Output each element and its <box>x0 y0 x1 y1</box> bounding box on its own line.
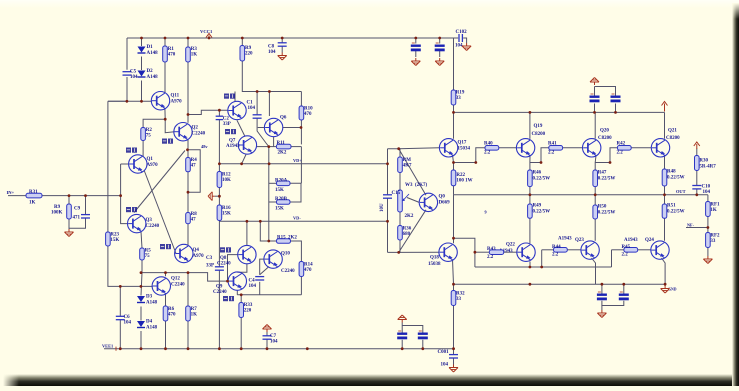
svg-text:2K2: 2K2 <box>288 236 297 241</box>
wire: Q22 emitter <box>529 262 531 268</box>
wire: R15 left <box>269 240 277 242</box>
junction dots output <box>452 161 709 286</box>
ground <box>411 58 420 66</box>
svg-text:R41: R41 <box>548 142 557 147</box>
svg-text:IN+: IN+ <box>7 190 15 195</box>
svg-text:R6: R6 <box>168 307 175 312</box>
svg-text:R4: R4 <box>191 158 198 163</box>
wire: R22 bottom <box>453 186 455 195</box>
wire: Q0 collector diag <box>399 149 426 196</box>
resistor R50 <box>593 205 598 219</box>
wire: R7 bottom <box>187 321 189 349</box>
wire: Q12 emitter to R6 <box>165 295 167 307</box>
wire: Q18 node to drivers <box>454 238 475 267</box>
svg-text:C9: C9 <box>74 207 81 212</box>
capacitor C10 <box>692 186 701 189</box>
wire: R32 top <box>453 284 455 290</box>
svg-text:A970: A970 <box>147 163 159 168</box>
resistor R15 <box>277 239 291 244</box>
svg-text:15K: 15K <box>275 207 284 212</box>
svg-text:C8: C8 <box>268 45 275 50</box>
svg-text:Q2: Q2 <box>192 126 199 131</box>
wire: C102 tie <box>454 37 459 39</box>
wire: cap C14 bottom <box>615 104 617 113</box>
wire: R14 bottom <box>300 277 302 295</box>
capacitor C13 <box>590 94 600 102</box>
wire: Q8 emitter to Q9 <box>237 264 247 273</box>
wire: Q9 emitter <box>236 290 238 295</box>
svg-text:RF1: RF1 <box>710 203 720 208</box>
wire: cap C12 gnd stub <box>439 51 441 57</box>
trimmer W3 <box>398 190 403 212</box>
svg-text:Q12: Q12 <box>171 277 180 282</box>
svg-text:(2K7): (2K7) <box>415 183 428 188</box>
svg-text:R46: R46 <box>533 171 542 176</box>
svg-text:Q21: Q21 <box>668 129 677 134</box>
wire: R12-R16 <box>218 188 220 206</box>
resistor R30 <box>695 156 700 171</box>
wire: C21 bottom <box>422 340 424 349</box>
wire: Q7 collector to node <box>256 146 268 148</box>
svg-text:VEE1: VEE1 <box>102 343 113 348</box>
wire: D4 to VEE rail <box>140 331 142 349</box>
diode D2 <box>138 69 159 80</box>
wire: Q8 collector up <box>246 221 248 245</box>
svg-text:R51: R51 <box>667 204 676 209</box>
svg-text:Q24: Q24 <box>645 238 654 243</box>
wire: R45 to Q24 <box>638 249 651 251</box>
svg-text:1K: 1K <box>191 313 198 318</box>
wire: Q11 base row <box>108 100 152 102</box>
wire: R33 top <box>240 295 242 303</box>
svg-text:C2240: C2240 <box>213 290 227 295</box>
wire: RM top <box>388 149 401 157</box>
svg-text:104: 104 <box>249 284 257 289</box>
wire: R12 top <box>218 164 220 172</box>
wire: VEE2 rail <box>454 283 666 285</box>
svg-text:VD+: VD+ <box>293 158 302 163</box>
transistor Q10 <box>264 250 282 268</box>
wire: node to R11 <box>269 146 277 148</box>
svg-text:2.2: 2.2 <box>622 253 629 258</box>
wire: D1-D2 <box>141 57 143 71</box>
svg-text:R36: R36 <box>403 227 412 232</box>
wire: R41 left <box>530 148 549 163</box>
transistor Q2 <box>174 123 206 141</box>
svg-text:2K2: 2K2 <box>278 151 287 156</box>
svg-text:33P: 33P <box>206 264 214 269</box>
capacitor C9 <box>81 215 90 218</box>
svg-text:C15: C15 <box>392 191 401 196</box>
svg-text:33: 33 <box>456 96 462 101</box>
resistor R3 <box>186 47 198 62</box>
wire: R47 bottom <box>594 187 596 195</box>
ground <box>703 256 712 264</box>
svg-text:0.22/5W: 0.22/5W <box>598 211 616 216</box>
svg-text:A1943: A1943 <box>624 238 638 243</box>
capacitor C11 <box>411 43 421 51</box>
svg-text:15034: 15034 <box>458 147 471 152</box>
resistor R32 <box>451 291 465 306</box>
wire: C1 to Q7 node <box>257 118 269 146</box>
svg-text:C2240: C2240 <box>171 283 185 288</box>
wire: VCC1 top rail <box>127 37 454 39</box>
matched-pair label Q9 <box>223 296 234 301</box>
svg-text:D4: D4 <box>146 320 153 325</box>
capacitor C15 <box>383 195 392 198</box>
svg-text:2.2: 2.2 <box>487 255 494 260</box>
wire: caps join <box>602 301 624 306</box>
svg-text:C1: C1 <box>247 101 254 106</box>
wire: Q17 emitter <box>453 155 454 163</box>
wire: R49 to Q22 <box>529 218 531 243</box>
svg-text:100K: 100K <box>51 211 63 216</box>
svg-text:C2240: C2240 <box>217 262 231 267</box>
svg-text:2K2: 2K2 <box>405 214 414 219</box>
svg-text:R50: R50 <box>598 205 607 210</box>
resistor R11 <box>276 144 291 149</box>
wire: OUT rail <box>454 194 708 196</box>
wire: Q3 emitter to R5 <box>141 232 142 249</box>
power tap <box>398 315 407 323</box>
wire: C9 bottom <box>69 218 86 228</box>
transistor Q5 <box>228 101 246 119</box>
wire: Q7 emitter down <box>242 155 246 164</box>
wire: C1 top <box>256 92 258 115</box>
page shadow right <box>732 3 739 386</box>
svg-text:C102: C102 <box>456 30 468 35</box>
svg-text:R43: R43 <box>487 247 496 252</box>
wire: C2 top <box>218 110 220 116</box>
resistor R14 <box>299 262 313 277</box>
svg-text:104: 104 <box>124 321 132 326</box>
ground <box>590 78 599 86</box>
wire: left column upper <box>107 101 109 232</box>
matched-pair label Q8 <box>220 247 231 252</box>
svg-text:R9: R9 <box>54 205 61 210</box>
wire: cap C16 stub <box>601 284 603 293</box>
svg-text:R3: R3 <box>191 47 198 52</box>
wire: down to ladder <box>300 147 302 184</box>
svg-text:W3: W3 <box>405 183 413 188</box>
wire: R5 bottom <box>141 260 143 273</box>
svg-text:2.2: 2.2 <box>617 151 624 156</box>
capacitor C5 <box>123 70 139 81</box>
capacitor C001 <box>449 355 458 358</box>
wire: R51 to Q24 <box>664 218 666 241</box>
svg-text:15K: 15K <box>222 212 231 217</box>
wire: Q4 emitter to R7 <box>187 273 189 306</box>
capacitor C20 <box>397 331 407 339</box>
net tick VEE1 <box>115 347 117 351</box>
wire: node to Q2 base <box>165 119 174 133</box>
wire: Q20 emitter <box>594 156 597 163</box>
resistor R9 <box>240 46 253 62</box>
svg-text:Q17: Q17 <box>458 141 467 146</box>
wire: R50 to Q23 <box>594 219 596 241</box>
wire: R9 to mirror row <box>242 61 301 92</box>
svg-text:R2: R2 <box>146 128 153 133</box>
svg-text:Q22: Q22 <box>506 243 515 248</box>
svg-text:470: 470 <box>304 112 312 117</box>
wire: Q11 emitter <box>164 108 166 119</box>
wire: C2 to VD+ node <box>218 120 220 164</box>
wire: R41 to Q20 <box>563 147 583 149</box>
wire: D2 bottom <box>141 81 143 102</box>
wire: C001 stub <box>453 349 455 354</box>
svg-text:VCC1: VCC1 <box>200 29 213 34</box>
svg-text:470: 470 <box>168 313 176 318</box>
wire: R32 bottom <box>453 306 455 349</box>
power VCC1 <box>206 34 212 39</box>
svg-text:15038: 15038 <box>428 262 441 267</box>
resistor R40 <box>485 146 499 151</box>
svg-text:33P: 33P <box>223 122 231 127</box>
wire: to Q17 base <box>399 147 440 150</box>
svg-text:R1: R1 <box>168 47 175 52</box>
junction dots left <box>68 100 221 288</box>
transistor Q12 <box>152 277 185 296</box>
wire: bias col top <box>387 149 389 195</box>
wire: Q10 base <box>260 259 265 266</box>
junction dots top rail <box>140 37 441 40</box>
wire: Q24 emitter down <box>662 258 666 284</box>
resistor R10 <box>299 106 313 120</box>
resistor R36 <box>398 226 412 241</box>
capacitor C21 <box>418 331 428 339</box>
svg-text:D1: D1 <box>147 45 154 50</box>
wire: R30 top <box>696 149 698 156</box>
capacitor C16 <box>597 292 607 300</box>
svg-text:104: 104 <box>130 75 138 80</box>
capacitor C2 <box>216 116 224 119</box>
transistor Q9 <box>228 272 246 290</box>
power arrow R30 <box>694 142 700 149</box>
svg-text:Q8: Q8 <box>220 256 227 261</box>
svg-text:R19: R19 <box>456 91 465 96</box>
svg-text:0.22/5W: 0.22/5W <box>533 177 551 182</box>
svg-text:R12: R12 <box>222 173 231 178</box>
junction dots mirror <box>218 90 302 296</box>
svg-text:R32: R32 <box>456 292 465 297</box>
capacitor C12 <box>435 43 445 51</box>
resistor R49 <box>528 204 533 218</box>
wire: VCC drop right <box>453 38 455 90</box>
wire: mirror bottom row <box>237 294 301 296</box>
wire: Q17 collector <box>453 112 455 138</box>
svg-text:A148: A148 <box>147 75 159 80</box>
resistor R48 <box>662 169 667 186</box>
svg-text:R44: R44 <box>552 245 561 250</box>
wire: R45 left drop <box>611 250 613 267</box>
matched-pair label Q5 <box>224 94 235 99</box>
capacitor C8 <box>268 43 287 55</box>
svg-text:C8200: C8200 <box>666 136 680 141</box>
svg-text:R48: R48 <box>667 170 676 175</box>
svg-text:2.2: 2.2 <box>548 151 555 156</box>
wire: left dropper bottom <box>108 77 127 101</box>
transistor Q0 <box>419 193 450 211</box>
wire: VD+ net <box>219 163 387 165</box>
svg-text:680: 680 <box>403 232 411 237</box>
wire: Q5 to Q7 <box>237 120 245 136</box>
svg-text:75: 75 <box>145 254 151 259</box>
wire: R40 to Q19 <box>499 147 517 149</box>
capacitor C102 <box>459 34 462 42</box>
svg-text:R10: R10 <box>304 107 313 112</box>
svg-text:C3: C3 <box>206 256 213 261</box>
svg-text:470: 470 <box>304 268 312 273</box>
wire: C3 bottom <box>218 270 220 349</box>
svg-text:Q18: Q18 <box>430 256 439 261</box>
ground <box>462 43 471 51</box>
resistor R51 <box>662 204 667 218</box>
wire: cap C13 bottom <box>594 104 596 113</box>
svg-text:104: 104 <box>270 340 278 345</box>
wire: R47 top <box>594 163 596 171</box>
wire: node to R8 <box>187 192 189 212</box>
resistor RF2 <box>706 233 720 248</box>
svg-text:0.22/5W: 0.22/5W <box>533 210 551 215</box>
wire: Q21 collector <box>664 112 666 138</box>
wire: R19 bottom <box>453 105 455 112</box>
wire: to D3 <box>141 273 142 296</box>
resistor R4 <box>186 158 198 172</box>
wire: C4 bottom <box>259 282 261 295</box>
wire: Q6 col stub <box>268 92 270 117</box>
junction dots bias <box>386 147 400 254</box>
svg-text:Q3: Q3 <box>146 218 153 223</box>
svg-text:Q4: Q4 <box>193 248 200 253</box>
wire: OUT to Q18 <box>453 195 455 244</box>
svg-text:33: 33 <box>456 297 462 302</box>
wire: Q6 base stub <box>258 127 265 129</box>
wire: R42 left <box>595 148 617 163</box>
resistor R9B <box>67 204 72 219</box>
wire: Q12 collector stub <box>165 273 167 277</box>
svg-text:220: 220 <box>244 309 252 314</box>
svg-text:A148: A148 <box>146 326 158 331</box>
wire: R20A left <box>269 182 277 184</box>
svg-text:D2: D2 <box>147 69 154 74</box>
wire: Q0 emitter diag <box>399 210 426 253</box>
wire: Q23 emitter down <box>592 258 596 284</box>
capacitor C14 <box>611 94 621 102</box>
wire: Q0 base diag <box>407 198 419 203</box>
svg-text:R30: R30 <box>699 159 708 164</box>
wire: R50 top <box>594 195 596 205</box>
svg-text:0.22/5W: 0.22/5W <box>598 177 616 182</box>
ground <box>278 53 287 61</box>
transistor Q17 <box>439 139 470 157</box>
svg-text:A1943: A1943 <box>226 144 240 149</box>
junction dots VCC2 rail <box>452 111 617 114</box>
transistor Q11 <box>151 92 182 110</box>
svg-text:RF2: RF2 <box>710 234 720 239</box>
resistor R23 <box>106 232 120 246</box>
wire: VEE1 bottom rail <box>104 348 455 350</box>
wire: R45 left <box>612 249 624 251</box>
svg-text:104: 104 <box>268 50 276 55</box>
wire: Q19 collector <box>529 112 531 138</box>
svg-text:R20A: R20A <box>275 179 288 184</box>
svg-text:R14: R14 <box>304 263 313 268</box>
resistor R12 <box>217 172 231 188</box>
svg-text:VD-: VD- <box>293 215 301 220</box>
wire: R10 top <box>300 92 302 107</box>
svg-text:104: 104 <box>248 106 256 111</box>
matched-pair label Q4 <box>160 244 171 249</box>
wire: R4 to R8 node <box>187 172 189 192</box>
svg-text:R47: R47 <box>598 171 607 176</box>
wire: C6 top <box>119 286 121 316</box>
resistor R1 <box>163 46 176 62</box>
transistor Q21 <box>651 139 669 157</box>
wire: Q5 emitter up <box>234 92 236 102</box>
wire: C102 to gnd <box>463 38 466 43</box>
capacitor C3 <box>215 267 224 270</box>
wire: cap C14 top <box>595 87 616 96</box>
wire: Q21 emitter to R48 <box>664 156 666 169</box>
resistor R8 <box>186 212 198 224</box>
wire: left dropper top <box>126 38 128 70</box>
wire: caps to gnd <box>601 306 603 311</box>
resistor R45 <box>624 248 638 253</box>
svg-text:48v: 48v <box>201 144 208 149</box>
svg-text:4K7: 4K7 <box>403 164 412 169</box>
resistor R20B <box>277 200 291 205</box>
svg-text:C7: C7 <box>270 334 277 339</box>
ground <box>597 310 606 318</box>
wire: R20A-R20B right <box>290 183 301 202</box>
wire: C21 top <box>402 326 423 333</box>
wire: R1 to Q11 <box>164 62 166 93</box>
svg-text:OUT: OUT <box>676 189 686 194</box>
svg-text:Q0: Q0 <box>439 195 446 200</box>
wire: R42 to Q21 <box>631 147 651 149</box>
transistor Q1 <box>129 155 159 173</box>
ground tap <box>208 192 215 201</box>
wire: C8 to gnd <box>281 46 283 52</box>
resistor R20A <box>277 181 291 186</box>
wire: D3-D4 <box>140 307 142 321</box>
svg-text:R33: R33 <box>244 303 253 308</box>
svg-text:A148: A148 <box>147 51 159 56</box>
transistor Q19 <box>516 139 534 157</box>
wire: 48v loop <box>188 150 201 192</box>
svg-text:C10: C10 <box>702 185 711 190</box>
wire: R44 left <box>542 249 554 251</box>
svg-text:R5: R5 <box>145 249 152 254</box>
capacitor C1 <box>253 115 262 118</box>
svg-text:15K: 15K <box>110 238 119 243</box>
svg-text:104: 104 <box>441 363 449 368</box>
wire: Q1/Q3 base column <box>121 164 129 224</box>
wire: diagonal Q1-Q4 <box>144 171 176 254</box>
resistor R33 <box>239 303 253 318</box>
svg-text:Q10: Q10 <box>281 252 290 257</box>
transistor Q18 <box>439 243 457 261</box>
matched-pair label Q3 <box>126 207 137 212</box>
ground <box>65 229 74 237</box>
svg-text:R16: R16 <box>222 206 231 211</box>
svg-text:47: 47 <box>191 164 197 169</box>
svg-text:A148: A148 <box>146 301 158 306</box>
wire: left column to Q12 base <box>108 246 153 286</box>
wire: R9B bottom to gnd <box>68 219 70 229</box>
wire: input left <box>8 195 26 197</box>
svg-text:R42: R42 <box>617 142 626 147</box>
